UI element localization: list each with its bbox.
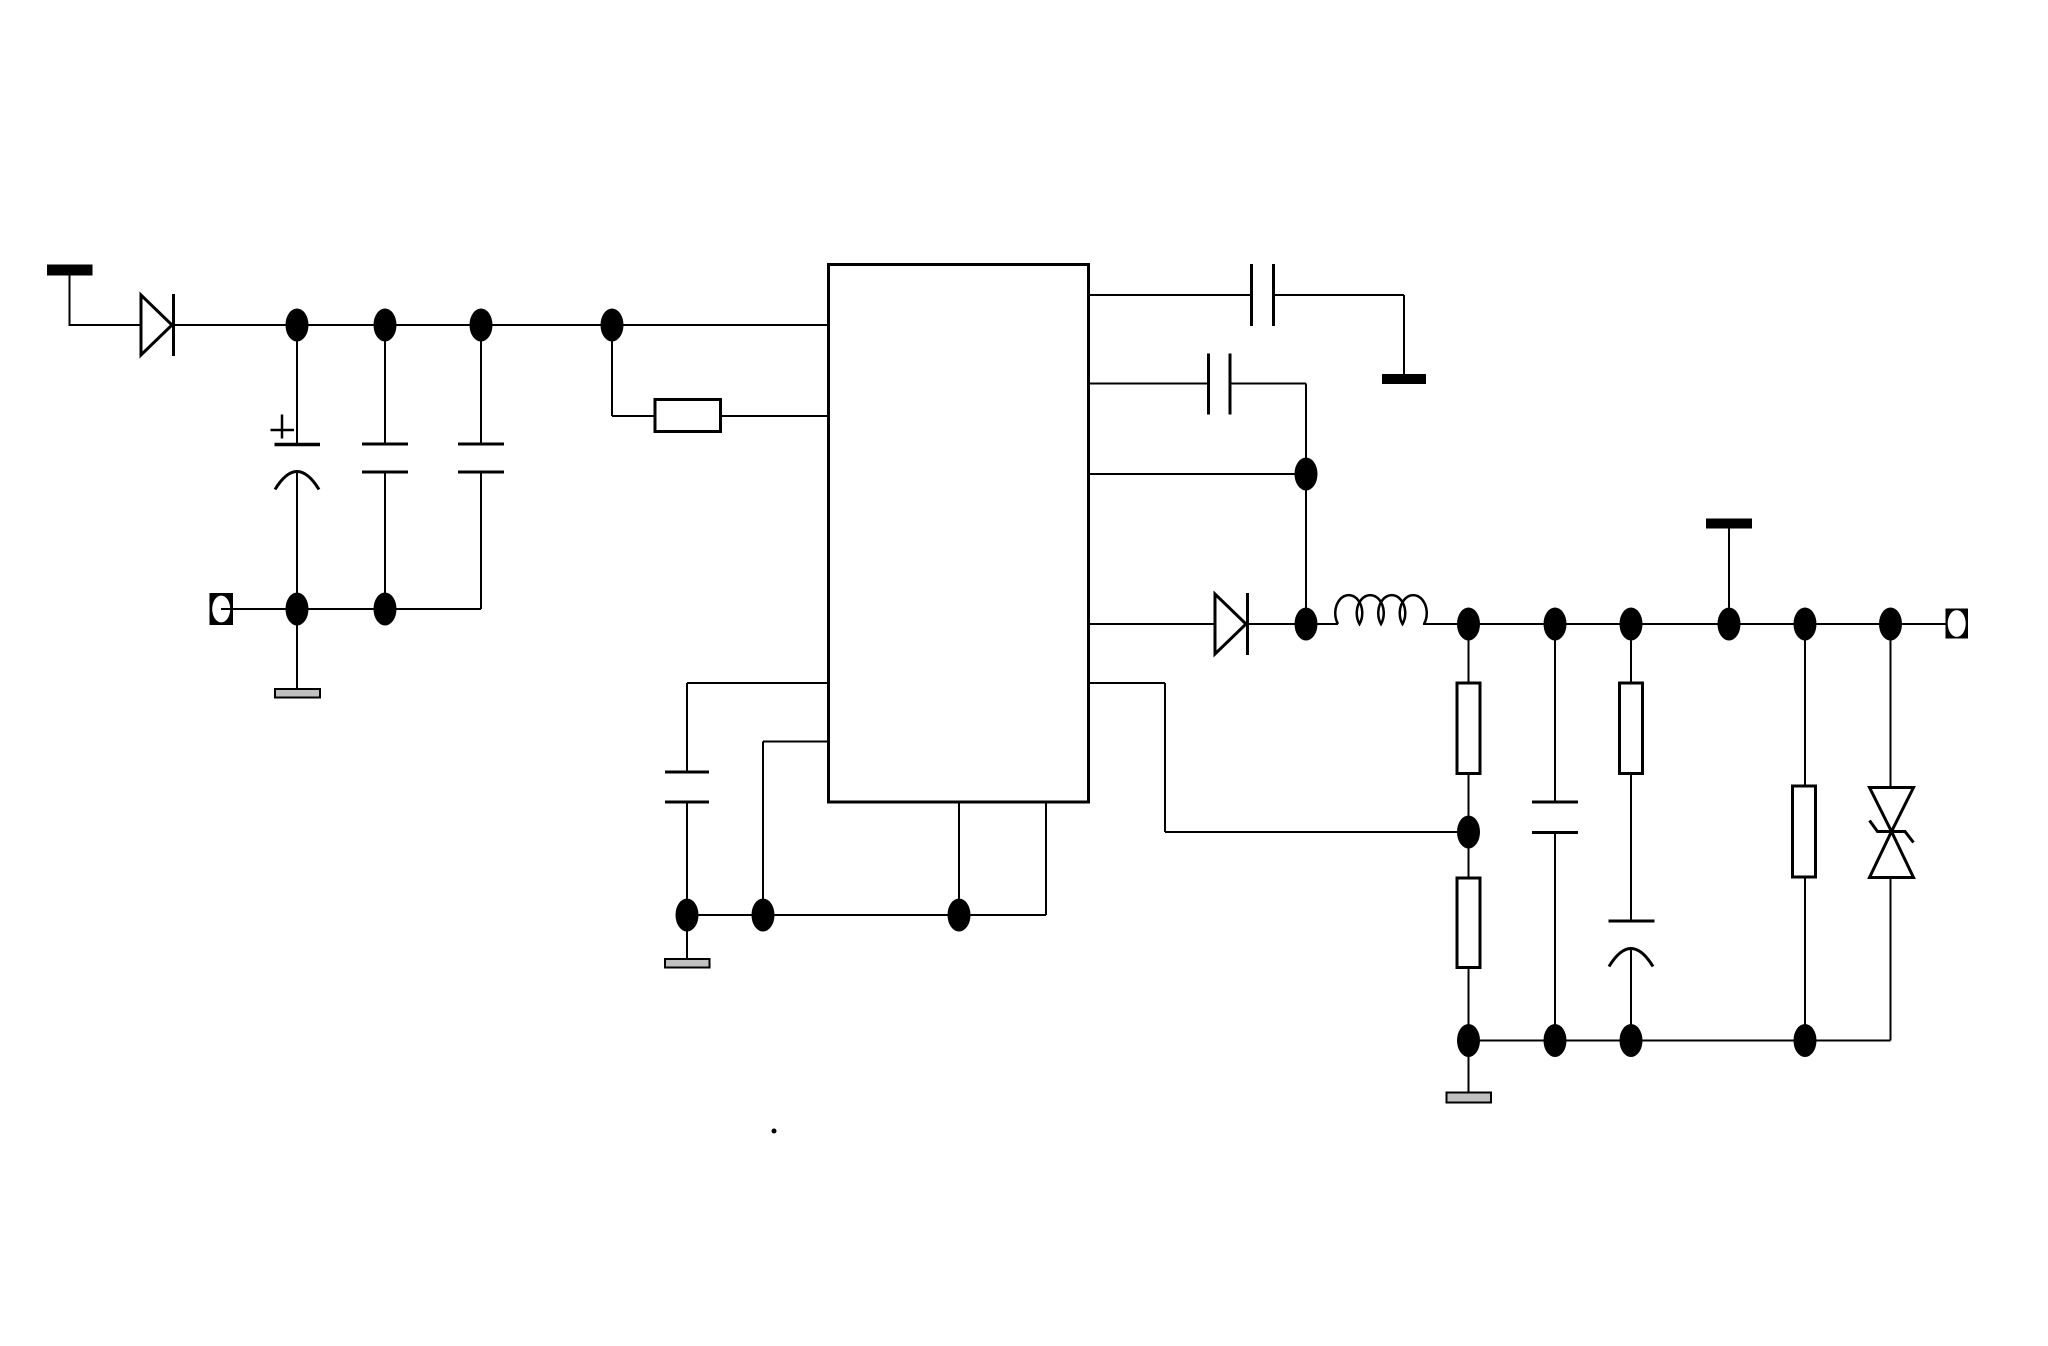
junction on left rail at C1 <box>286 593 309 626</box>
wire feedback down <box>1164 683 1166 832</box>
junction output rail at R4 <box>1620 608 1643 641</box>
junction on top rail at C1 <box>286 309 309 342</box>
wire C5 to ground drop <box>1274 294 1405 296</box>
IC U1 <box>829 265 1089 803</box>
capacitor C1 polarized <box>271 415 321 490</box>
wire IC bottom pin 2 <box>1045 802 1047 915</box>
wire to R1 left <box>612 415 655 417</box>
port JP1 <box>210 593 234 625</box>
ground G1 <box>275 689 320 698</box>
wire C7 to bottom rail <box>1554 833 1556 1041</box>
junction output rail at R2 <box>1457 608 1480 641</box>
junction output rail at R5 <box>1794 608 1817 641</box>
port JP2 <box>1946 609 1969 639</box>
junction node at pin3 <box>1295 458 1318 491</box>
wire C2 top lead <box>384 325 386 444</box>
junction output rail at D3 <box>1879 608 1902 641</box>
wire C4 bottom lead <box>686 802 688 915</box>
wire IC bottom pin 1 <box>958 802 960 915</box>
junction bottom rail at C7 <box>1544 1024 1567 1057</box>
wire IC right pin4 to D2 <box>1089 623 1216 625</box>
junction bottom rail at R5 <box>1794 1024 1817 1057</box>
junction on top rail at R1 drop <box>601 309 624 342</box>
junction bottom rail at R3 <box>1457 1024 1480 1057</box>
wire D2 to L1 <box>1248 623 1338 625</box>
wire IC left pin to comp drop <box>763 741 829 743</box>
wire to ground G1 <box>296 609 298 689</box>
resistor R5 <box>1793 786 1816 877</box>
wire comp drop <box>762 742 764 916</box>
wire IC right pin3 <box>1089 473 1307 475</box>
junction output rail at VOUT flag <box>1718 608 1741 641</box>
wire left ground rail <box>221 608 481 610</box>
wire under-IC ground rail <box>687 914 1046 916</box>
junction feedback node <box>1457 816 1480 849</box>
capacitor C4 <box>665 772 709 802</box>
wire D3 to bottom rail <box>1890 878 1892 1041</box>
wire junction drop to R1 <box>611 325 613 416</box>
inductor L1 <box>1335 595 1427 624</box>
ground bar (solid) <box>1382 374 1426 384</box>
wire R1 to IC <box>721 415 829 417</box>
wire junction down to diode node <box>1305 474 1307 624</box>
junction on top rail at C3 <box>470 309 493 342</box>
resistor R4 <box>1620 683 1643 774</box>
wire to ground G2 <box>686 915 688 959</box>
capacitor C8 polarized <box>1609 921 1655 967</box>
wire rail to C7 <box>1554 624 1556 802</box>
capacitor C2 <box>362 444 408 472</box>
junction at D2 cathode <box>1295 608 1318 641</box>
wire R2 to R3 <box>1468 774 1470 879</box>
wire to ground G3 <box>1468 1041 1470 1093</box>
wire bottom ground rail <box>1469 1040 1891 1042</box>
wire rail to R2 <box>1468 624 1470 683</box>
resistor R2 <box>1457 683 1480 774</box>
diode D2 <box>1215 593 1248 655</box>
junction output rail at C7 <box>1544 608 1567 641</box>
wire IC right pin1 to C5 <box>1089 294 1252 296</box>
wire C8 to bottom rail <box>1630 947 1632 1041</box>
wire C2 bottom lead <box>384 472 386 609</box>
capacitor C3 <box>458 444 504 472</box>
resistor R3 <box>1457 878 1480 968</box>
wire C4 top lead <box>686 683 688 772</box>
wire rail to R4 <box>1630 624 1632 683</box>
stray dot mark <box>772 1129 777 1134</box>
wire rail to D3 <box>1890 624 1892 788</box>
wire C3 top lead <box>480 325 482 444</box>
junction bottom rail at C8 <box>1620 1024 1643 1057</box>
capacitor C6 <box>1209 354 1231 415</box>
junction on top rail at C2 <box>374 309 397 342</box>
junction under-IC rail at comp <box>752 899 775 932</box>
wire IC feedback pin <box>1089 682 1166 684</box>
wire R3 to bottom rail <box>1468 968 1470 1041</box>
junction on left rail at C2 <box>374 593 397 626</box>
wire output rail <box>1423 623 1950 625</box>
wire IC left pin to C4 <box>687 682 829 684</box>
resistor R1 <box>655 400 721 432</box>
wire R5 to bottom rail <box>1804 877 1806 1041</box>
wire D1 to IC (top rail) <box>174 324 829 326</box>
TVS diode D3 <box>1870 788 1914 878</box>
wire C1 bottom lead <box>296 473 298 609</box>
wire down to ground bar <box>1403 295 1405 374</box>
wire rail to R5 <box>1804 624 1806 786</box>
wire VIN to D1 <box>70 324 142 326</box>
wire C6 drop to junction <box>1305 384 1307 475</box>
junction under-IC rail at GND pin <box>948 899 971 932</box>
wire C6 right lead <box>1230 383 1306 385</box>
ground G3 <box>1447 1093 1492 1103</box>
wire IC right pin2 to C6 <box>1089 383 1209 385</box>
capacitor C5 <box>1252 264 1274 326</box>
junction under-IC rail at C4 <box>676 899 699 932</box>
wire C3 bottom lead <box>480 472 482 609</box>
power flag VOUT <box>1706 519 1752 625</box>
power flag VIN <box>47 265 93 327</box>
diode D1 <box>141 294 174 356</box>
wire feedback right to divider <box>1165 831 1469 833</box>
capacitor C7 <box>1532 802 1578 833</box>
ground G2 <box>665 959 710 968</box>
wire R4 to C8 <box>1630 774 1632 922</box>
wire C1 top lead <box>296 325 298 444</box>
